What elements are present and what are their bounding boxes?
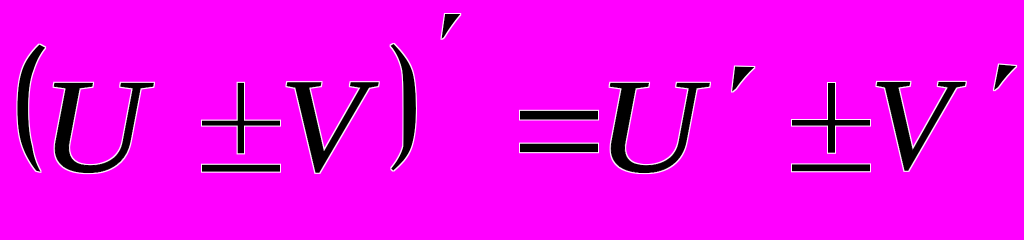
svg-text:V: V bbox=[280, 51, 380, 200]
prime after U bbox=[732, 67, 755, 92]
variable U (right-hand side) bbox=[597, 52, 711, 201]
variable U (inside parentheses) bbox=[41, 52, 155, 201]
prime (derivative mark) after right parenthesis bbox=[442, 14, 461, 39]
left parenthesis of (U ±V) bbox=[17, 45, 45, 172]
plus-minus sign (right-hand side): vertical stem bbox=[828, 83, 835, 153]
equals sign: upper bar bbox=[520, 111, 598, 120]
svg-text:U: U bbox=[597, 52, 711, 201]
svg-text:V: V bbox=[870, 51, 966, 197]
prime after V bbox=[994, 65, 1016, 91]
plus-minus sign (inside parentheses): cross bar bbox=[202, 121, 280, 126]
svg-text:U: U bbox=[41, 52, 155, 201]
plus-minus sign (right-hand side): cross bar bbox=[792, 120, 870, 126]
plus-minus sign: vertical stem bbox=[238, 83, 244, 154]
variable V (inside parentheses) bbox=[280, 51, 380, 200]
right parenthesis of (U ±V) bbox=[391, 44, 417, 171]
equals sign: lower bar bbox=[520, 144, 598, 153]
plus-minus sign (right-hand side): lower bar bbox=[792, 164, 870, 171]
variable V (right-hand side) bbox=[870, 51, 966, 197]
plus-minus sign: lower bar bbox=[202, 165, 280, 172]
